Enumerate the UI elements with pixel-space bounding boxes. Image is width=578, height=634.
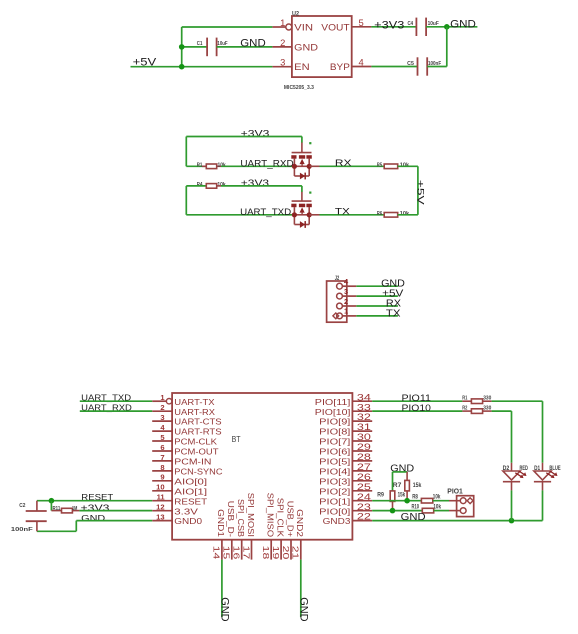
led lead cathode	[542, 482, 544, 491]
IC pin 26 PIO[3]	[352, 480, 372, 482]
svg-text:33: 33	[357, 402, 371, 412]
capacitor C1	[206, 38, 208, 57]
junction source	[292, 212, 297, 217]
IC pin 8 PCN-SYNC	[152, 470, 172, 472]
svg-text:PCM-OUT: PCM-OUT	[174, 447, 218, 457]
capacitor C2	[36, 501, 38, 511]
svg-text:PIO[9]: PIO[9]	[319, 417, 350, 427]
svg-text:+5V: +5V	[416, 180, 426, 206]
connector PIO1 pin 2	[460, 508, 466, 514]
svg-text:3.3V: 3.3V	[174, 506, 198, 516]
capacitor C4	[415, 18, 417, 36]
resistor R1 330	[462, 400, 471, 402]
svg-text:8: 8	[160, 463, 164, 472]
connector J2 pin 1	[337, 313, 343, 319]
svg-text:UART-RTS: UART-RTS	[174, 427, 222, 437]
IC pin 31 PIO[8]	[352, 430, 372, 432]
wire BYP to C5	[371, 66, 417, 68]
mosfet channel segments	[291, 155, 296, 159]
svg-text:GND: GND	[390, 464, 414, 475]
svg-text:R9: R9	[377, 492, 384, 499]
led triangle	[503, 471, 520, 480]
IC pin 4 UART-RTS	[152, 430, 172, 432]
svg-text:32: 32	[357, 412, 371, 422]
svg-text:BLUE: BLUE	[549, 465, 561, 472]
svg-text:1: 1	[280, 17, 285, 28]
junction drain	[307, 164, 312, 169]
wire R10 to PIO1	[434, 510, 449, 512]
svg-text:GND: GND	[450, 19, 476, 31]
wire to R1	[186, 165, 206, 167]
pin 2 GND stub	[272, 46, 292, 48]
wire to C1	[182, 46, 207, 48]
pin 5 VOUT stub	[352, 26, 372, 28]
svg-text:R1: R1	[462, 396, 467, 402]
svg-text:PCN-SYNC: PCN-SYNC	[174, 467, 222, 477]
IC pin 14 GND1	[221, 540, 223, 560]
svg-text:SPI_CSB: SPI_CSB	[236, 499, 246, 537]
svg-text:J2: J2	[335, 275, 340, 282]
svg-text:9: 9	[160, 473, 164, 482]
svg-text:PIO[7]: PIO[7]	[319, 437, 350, 447]
svg-text:BYP: BYP	[330, 62, 350, 72]
IC pin 33 PIO[10]	[352, 410, 372, 412]
svg-text:16: 16	[232, 546, 242, 560]
connector J2 box	[327, 281, 347, 322]
mosfet body diode	[293, 166, 295, 176]
svg-text:25: 25	[357, 482, 371, 492]
IC pin 18 SPI_MISO	[270, 540, 272, 560]
svg-text:19: 19	[271, 546, 281, 560]
svg-text:U2: U2	[292, 10, 299, 17]
wire J2 +5V	[356, 295, 398, 297]
IC pin 25 PIO[2]	[352, 490, 372, 492]
svg-text:100nF: 100nF	[11, 527, 33, 533]
IC pin 34 PIO[11]	[352, 400, 372, 402]
wire R1 to mosfet	[221, 165, 294, 167]
svg-text:GND: GND	[294, 42, 318, 52]
wire to pin 1	[182, 26, 273, 28]
svg-text:R11: R11	[53, 506, 61, 512]
connector PIO1 pin1 marker	[467, 498, 473, 504]
mosfet source lead	[293, 159, 295, 167]
svg-text:4: 4	[344, 277, 349, 286]
mosfet channel segments	[291, 204, 296, 208]
svg-text:PCM-CLK: PCM-CLK	[174, 437, 217, 447]
svg-text:AIO[0]: AIO[0]	[174, 476, 207, 486]
svg-text:PIO[4]: PIO[4]	[319, 467, 350, 477]
svg-text:15: 15	[222, 546, 232, 560]
resistor R9 15k	[390, 491, 395, 502]
wire VOUT to C4	[371, 26, 416, 28]
IC pin 9 AIO[0]	[152, 480, 172, 482]
wire +5V rail vertical	[417, 166, 419, 215]
wire +3V3 rail shifter2	[221, 185, 302, 187]
wire left drop shifter1	[185, 137, 187, 167]
led lead anode	[511, 463, 513, 471]
IC pin 6 PCM-OUT	[152, 450, 172, 452]
led triangle	[534, 471, 551, 480]
IC pin 24 PIO[1]	[352, 500, 372, 502]
svg-text:R6: R6	[377, 211, 382, 217]
svg-text:2: 2	[280, 37, 285, 48]
svg-text:UART-RX: UART-RX	[174, 407, 215, 417]
junction GND net	[444, 24, 450, 30]
wire D1 cathode to GND	[542, 490, 544, 520]
pin 1 VIN stub	[272, 26, 285, 28]
svg-text:10k: 10k	[433, 504, 441, 511]
wire left drop shifter2	[185, 186, 187, 215]
wire GND stub mid	[393, 471, 408, 473]
resistor R1	[202, 165, 206, 167]
IC pin 23 PIO[0]	[352, 510, 372, 512]
svg-text:28: 28	[357, 452, 371, 462]
svg-text:C5: C5	[407, 61, 414, 67]
svg-text:20: 20	[281, 546, 291, 560]
junction +5V/vertical	[179, 64, 185, 70]
svg-text:GND0: GND0	[174, 516, 202, 526]
wire to R7	[406, 472, 408, 481]
wire J2 RX	[356, 305, 398, 307]
wire vertical to VIN	[181, 27, 183, 67]
svg-text:3: 3	[160, 413, 164, 422]
wire UART_TXD	[80, 400, 152, 402]
IC pin 5 PCM-CLK	[152, 440, 172, 442]
resistor R10 10k	[422, 508, 433, 513]
svg-text:PIO[0]: PIO[0]	[319, 506, 350, 516]
wire PIO[0] row	[372, 510, 422, 512]
svg-text:USB_D-: USB_D-	[226, 501, 236, 537]
junction RESET	[49, 498, 55, 504]
svg-text:GND: GND	[81, 513, 105, 523]
svg-text:GND2: GND2	[295, 509, 305, 537]
IC pin 21 GND2	[300, 540, 302, 560]
svg-text:SPI_MISO: SPI_MISO	[266, 493, 276, 538]
wire - gate drop from +3V3 rail	[301, 186, 303, 192]
IC pin 10 AIO[1]	[152, 490, 172, 492]
svg-text:VOUT: VOUT	[321, 22, 350, 32]
wire +3V3 rail shifter1	[186, 136, 302, 138]
junction GND row	[179, 44, 185, 50]
IC pin 15 USB_D-	[231, 540, 233, 560]
svg-text:PIO[1]: PIO[1]	[319, 496, 350, 506]
svg-text:31: 31	[357, 422, 371, 432]
svg-text:5: 5	[359, 17, 364, 28]
svg-text:7: 7	[160, 453, 164, 462]
resistor R6	[384, 213, 398, 218]
svg-text:GND: GND	[298, 597, 310, 621]
wire R6 to +5V rail	[398, 214, 418, 216]
resistor R7 15k	[405, 480, 410, 491]
svg-text:2: 2	[160, 403, 164, 412]
wire C1 to pin 2	[217, 46, 273, 48]
svg-text:26: 26	[357, 472, 371, 482]
IC pin 12 3.3V	[152, 510, 172, 512]
svg-text:1M: 1M	[72, 506, 78, 512]
svg-text:VIN: VIN	[294, 22, 313, 32]
svg-text:13: 13	[156, 513, 164, 522]
mosfet body arrow	[300, 207, 305, 212]
pin 3 EN stub	[272, 66, 292, 68]
svg-text:C1: C1	[197, 41, 203, 47]
wire PIO10	[372, 410, 462, 412]
wire +3V3 to pin 12	[79, 510, 152, 512]
wire R1 to D1	[492, 400, 543, 402]
resistor R5	[384, 164, 398, 169]
mosfet gate bar	[292, 200, 312, 202]
connector J2 pin 2	[337, 303, 343, 309]
resistor R8 10k	[421, 498, 432, 503]
connector PIO1 pin 1	[460, 498, 466, 504]
svg-text:RED: RED	[520, 465, 529, 472]
svg-text:18: 18	[261, 546, 271, 560]
wire drain out RX	[309, 165, 319, 167]
led cathode bar	[534, 481, 551, 483]
svg-text:30: 30	[357, 432, 371, 442]
svg-text:3: 3	[280, 57, 285, 68]
wire R2 to D2	[492, 410, 512, 412]
resistor R2 330	[462, 410, 471, 412]
svg-text:22: 22	[357, 512, 371, 522]
wire GND pin13	[76, 520, 152, 522]
svg-text:PIO[8]: PIO[8]	[319, 427, 350, 437]
svg-text:PIO[10]: PIO[10]	[315, 407, 351, 417]
wire source-drain row	[294, 165, 309, 167]
IC pin 29 PIO[6]	[352, 450, 372, 452]
svg-text:10k: 10k	[433, 494, 441, 501]
wire RESET	[37, 500, 152, 502]
svg-text:AIO[1]: AIO[1]	[174, 486, 207, 496]
connector J2 pin1 marker	[333, 313, 339, 319]
wire R5 to +5V rail	[398, 165, 418, 167]
wire PIO[1] row	[372, 500, 421, 502]
wire drain out TX	[309, 214, 319, 216]
wire R7 to PIO[1] row	[406, 491, 408, 501]
svg-text:3: 3	[344, 287, 348, 296]
svg-text:MIC5205_3.3: MIC5205_3.3	[284, 85, 314, 91]
svg-text:R8: R8	[412, 494, 418, 501]
wire J2 GND	[356, 285, 398, 287]
svg-text:14: 14	[212, 546, 222, 560]
svg-text:UART-CTS: UART-CTS	[174, 417, 222, 427]
svg-text:GND1: GND1	[216, 509, 226, 537]
wire +5V	[131, 66, 273, 68]
wire to mosfet2	[186, 214, 294, 216]
svg-text:PIO10: PIO10	[402, 403, 431, 413]
svg-text:24: 24	[357, 492, 371, 502]
svg-text:+3V3: +3V3	[374, 20, 404, 32]
svg-text:12: 12	[156, 503, 164, 512]
svg-text:GND: GND	[401, 512, 426, 523]
svg-text:PIO[6]: PIO[6]	[319, 447, 350, 457]
svg-text:27: 27	[357, 462, 371, 472]
mosfet drain lead	[308, 207, 310, 215]
svg-text:PIO1: PIO1	[447, 486, 463, 495]
svg-text:UART_RXD: UART_RXD	[240, 158, 294, 168]
wire PIO11	[372, 400, 462, 402]
svg-text:17: 17	[241, 546, 251, 560]
IC pin 3 UART-CTS	[152, 420, 172, 422]
svg-text:C2: C2	[19, 503, 25, 509]
wire GND2 pin21	[300, 560, 302, 617]
mosfet body arrow	[300, 159, 305, 164]
svg-text:GND: GND	[240, 37, 266, 49]
resistor R11 1M	[51, 510, 61, 512]
svg-text:D1: D1	[534, 465, 540, 472]
svg-text:PIO[2]: PIO[2]	[319, 486, 350, 496]
svg-text:PCM-IN: PCM-IN	[174, 457, 211, 467]
led lead anode	[542, 463, 544, 471]
IC pin 32 PIO[9]	[352, 420, 372, 422]
svg-text:PIO[3]: PIO[3]	[319, 476, 350, 486]
svg-text:R1: R1	[197, 163, 203, 169]
svg-text:PIO[5]: PIO[5]	[319, 457, 350, 467]
wire source-drain row	[294, 214, 309, 216]
green tick	[309, 142, 311, 144]
svg-text:PIO[11]: PIO[11]	[315, 397, 351, 407]
svg-text:10: 10	[156, 483, 164, 492]
IC pin 30 PIO[7]	[352, 440, 372, 442]
wire C5 to vertical	[427, 66, 447, 68]
wire GND left	[37, 530, 76, 532]
svg-text:R2: R2	[462, 406, 467, 412]
wire J2 TX	[356, 315, 398, 317]
wire UART_RXD	[80, 410, 152, 412]
pin 4 BYP stub	[352, 66, 372, 68]
svg-text:23: 23	[357, 502, 371, 512]
connector J2 pin 3	[337, 293, 343, 299]
wire R9 to PIO[0] row	[392, 501, 394, 510]
wire GND down	[75, 521, 77, 532]
svg-text:330: 330	[483, 396, 491, 402]
svg-text:2: 2	[344, 297, 348, 306]
junction source	[292, 164, 297, 169]
mosfet body diode	[293, 215, 295, 225]
green tick	[309, 192, 311, 194]
svg-text:1: 1	[344, 307, 348, 316]
IC pin 22 GND3	[352, 520, 372, 522]
svg-text:UART-TX: UART-TX	[174, 397, 215, 407]
svg-text:RESET: RESET	[174, 496, 207, 506]
svg-text:R5: R5	[377, 163, 382, 169]
svg-text:PIO11: PIO11	[402, 393, 431, 403]
wire C4 to GND	[426, 26, 477, 28]
wire to R9	[392, 472, 394, 491]
svg-text:330: 330	[483, 406, 491, 412]
svg-text:GND3: GND3	[323, 516, 351, 526]
led arrows	[515, 471, 526, 478]
junction PIO[1]	[404, 498, 410, 504]
svg-text:4: 4	[359, 57, 364, 68]
svg-text:21: 21	[291, 546, 301, 560]
svg-text:C4: C4	[408, 21, 414, 27]
led cathode bar	[503, 481, 520, 483]
IC pin 16 SPI_CSB	[241, 540, 243, 560]
svg-text:USB_D+: USB_D+	[285, 501, 295, 537]
wire GND3 row	[372, 520, 542, 522]
svg-text:EN: EN	[294, 62, 310, 72]
svg-text:15k: 15k	[413, 482, 422, 489]
IC pin 20 USB_D+	[290, 540, 292, 560]
IC pin 1 UART-TX	[152, 400, 166, 402]
regulator U2 MIC5205 box	[292, 16, 352, 77]
svg-text:D2: D2	[503, 465, 510, 472]
wire D2 cathode to GND	[511, 490, 513, 520]
svg-text:UART_TXD: UART_TXD	[240, 207, 291, 217]
mosfet source lead	[293, 207, 295, 215]
wire R8 to PIO1	[433, 500, 449, 502]
IC pin 11 RESET	[152, 500, 172, 502]
wire junction down to R11	[50, 501, 52, 511]
svg-text:SPI_MOSI: SPI_MOSI	[246, 493, 256, 537]
IC pin 28 PIO[5]	[352, 460, 372, 462]
svg-text:29: 29	[357, 442, 371, 452]
svg-text:R7: R7	[393, 482, 402, 489]
svg-text:6: 6	[160, 443, 164, 452]
svg-text:TX: TX	[335, 205, 351, 216]
svg-text:RX: RX	[335, 157, 353, 168]
svg-text:11: 11	[157, 493, 166, 502]
wire - gate drop from +3V3 rail	[301, 137, 303, 143]
IC pin 13 GND0	[152, 520, 172, 522]
mosfet drain lead	[308, 159, 310, 167]
led lead cathode	[511, 482, 513, 491]
junction GND3/D2	[509, 518, 515, 524]
svg-text:R10: R10	[412, 504, 420, 511]
IC pin 2 UART-RX	[152, 410, 172, 412]
svg-text:TX: TX	[386, 308, 401, 319]
svg-text:15k: 15k	[398, 492, 406, 499]
capacitor C5	[417, 57, 419, 75]
svg-text:BT: BT	[232, 434, 241, 444]
junction PIO[0]	[390, 508, 396, 514]
junction drain	[307, 212, 312, 217]
svg-text:GND: GND	[219, 597, 231, 621]
svg-text:SPI_CLK: SPI_CLK	[275, 498, 285, 537]
svg-text:34: 34	[357, 392, 371, 402]
connector PIO1 box	[457, 496, 474, 517]
led arrows	[546, 471, 557, 478]
wire vertical GND to BYP	[446, 27, 448, 67]
IC pin 27 PIO[4]	[352, 470, 372, 472]
IC pin 19 SPI_CLK	[280, 540, 282, 560]
connector J2 pin 4	[337, 283, 343, 289]
IC BT module box	[172, 393, 352, 540]
mosfet gate bar	[292, 152, 312, 154]
wire GND1 pin14	[221, 560, 223, 617]
IC pin 7 PCM-IN	[152, 460, 172, 462]
IC pin 17 SPI_MOSI	[251, 540, 253, 560]
